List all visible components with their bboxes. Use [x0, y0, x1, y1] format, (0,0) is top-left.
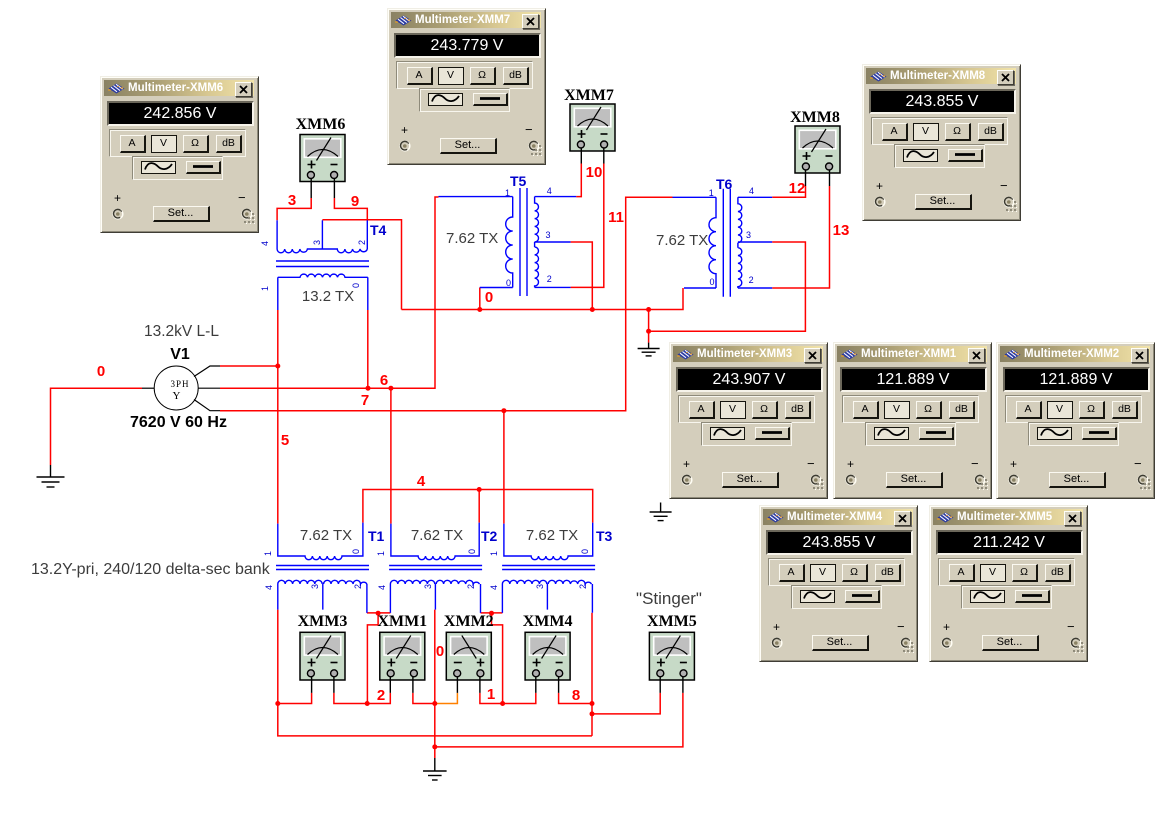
ground GND2	[638, 343, 660, 356]
wire node 1 lower (XMM2+ / XMM4+)	[480, 693, 536, 704]
svg-text:6: 6	[380, 372, 388, 389]
transformer T5 labels	[505, 186, 552, 288]
wire node 13 (T6 pin2 to XMM8-)	[772, 186, 829, 288]
svg-text:T2: T2	[481, 528, 498, 544]
svg-text:T5: T5	[510, 173, 527, 189]
wire phase A vertical (node 5)	[277, 310, 279, 524]
transformer T1 labels	[263, 549, 363, 590]
transformer T3	[502, 523, 595, 613]
multimeter symbol XMM4	[525, 632, 570, 693]
wire node 0 (V1 to ground)	[51, 388, 143, 465]
wire node 9 (XMM6- to T4 pin2)	[334, 198, 367, 220]
svg-text:V1: V1	[170, 346, 190, 363]
multimeter window XMM6	[100, 76, 259, 233]
svg-text:XMM4: XMM4	[523, 613, 573, 630]
transformer T6	[673, 189, 773, 297]
svg-text:4: 4	[264, 585, 274, 590]
junction bus / ground drop	[646, 307, 651, 312]
transformer T3 labels	[489, 549, 590, 590]
junction node 0 / XMM5-	[432, 744, 437, 749]
transformer T1	[276, 523, 369, 613]
svg-text:12: 12	[789, 180, 806, 197]
multimeter symbol XMM6	[300, 135, 345, 199]
junction node 8 / T1 pin4 / XMM3+	[275, 701, 280, 706]
wire T1 pin4 to node8 rail	[278, 610, 592, 736]
svg-text:1: 1	[260, 286, 270, 291]
wire node 2 upper (T1 pin2 / T2 pin4)	[367, 613, 391, 704]
wire node 10 (T5 pin4 to XMM7+)	[576, 164, 581, 197]
wire T5 pin3 link	[571, 242, 593, 310]
multimeter symbol XMM7	[570, 104, 615, 164]
svg-text:13.2 TX: 13.2 TX	[302, 288, 354, 305]
junction node 6 / T4 pin0	[366, 386, 371, 391]
svg-text:T1: T1	[368, 528, 385, 544]
wire node 1 upper (T2 pin2 / T3 pin4)	[481, 613, 503, 704]
svg-text:2: 2	[547, 274, 552, 284]
junction node 0 / XMM1- / XMM2-	[432, 701, 437, 706]
svg-text:13: 13	[833, 222, 850, 239]
svg-text:3: 3	[288, 192, 296, 209]
svg-text:7.62 TX: 7.62 TX	[300, 527, 352, 544]
junction phase A / T4 pin1	[275, 364, 280, 369]
multimeter window XMM7	[387, 8, 546, 165]
wire phase C (node 7)	[220, 197, 673, 410]
wire XMM3+ lead	[278, 693, 312, 704]
junction bus / T5 pin3	[590, 307, 595, 312]
wire GND3 stem red	[434, 747, 436, 758]
svg-text:XMM7: XMM7	[564, 87, 614, 104]
multimeter window XMM4	[759, 505, 918, 662]
wire T4 pin0 drop	[367, 310, 369, 388]
svg-text:13.2kV L-L: 13.2kV L-L	[144, 323, 219, 340]
svg-text:4: 4	[489, 585, 499, 590]
svg-text:XMM8: XMM8	[790, 109, 840, 126]
svg-text:7.62 TX: 7.62 TX	[656, 232, 708, 249]
wire T2 primary feed	[390, 388, 392, 523]
svg-text:0: 0	[506, 278, 511, 288]
svg-text:4: 4	[547, 186, 552, 196]
multimeter symbol XMM8	[795, 126, 840, 186]
transformer T4 labels	[260, 240, 367, 291]
svg-text:2: 2	[578, 584, 588, 589]
svg-text:3: 3	[535, 584, 545, 589]
svg-text:0: 0	[97, 363, 105, 380]
svg-text:0: 0	[351, 549, 361, 554]
svg-text:9: 9	[351, 193, 359, 210]
junction node 8 / XMM4- / T3 pin2	[590, 701, 595, 706]
wire T4 pin3 to neutral bus	[322, 220, 401, 310]
svg-text:3PH: 3PH	[170, 379, 189, 389]
svg-text:0: 0	[710, 277, 715, 287]
svg-text:T3: T3	[596, 528, 613, 544]
multimeter symbol XMM1	[380, 632, 425, 693]
svg-text:2: 2	[749, 275, 754, 285]
wire XMM5- to ground net	[435, 693, 683, 747]
wire XMM2- orange link	[435, 693, 458, 704]
svg-text:7: 7	[361, 392, 369, 409]
junction node 7 / T3 feed	[501, 408, 506, 413]
transformer T6 labels	[709, 186, 754, 287]
wire node 2 (XMM3- / XMM1+)	[334, 693, 390, 704]
svg-text:XMM3: XMM3	[298, 613, 348, 630]
wire T5 pin0 link	[479, 288, 481, 310]
junction bus / T5 pin0	[477, 307, 482, 312]
multimeter symbol XMM2 (reversed polarity)	[446, 632, 491, 693]
wire XMM1- lead	[413, 693, 435, 704]
source V1	[142, 366, 220, 411]
svg-text:7620 V 60 Hz: 7620 V 60 Hz	[130, 414, 227, 431]
svg-text:T4: T4	[370, 222, 387, 238]
svg-text:7.62 TX: 7.62 TX	[526, 527, 578, 544]
svg-text:XMM1: XMM1	[377, 613, 427, 630]
multimeter window XMM1	[833, 342, 992, 499]
svg-text:4: 4	[260, 241, 270, 246]
svg-text:1: 1	[263, 551, 273, 556]
wire node 8 (XMM4- / T3 pin2 / XMM5+)	[559, 613, 661, 736]
svg-text:T6: T6	[716, 176, 733, 192]
multimeter window XMM8	[862, 64, 1021, 221]
svg-text:2: 2	[353, 584, 363, 589]
svg-text:7.62 TX: 7.62 TX	[446, 230, 498, 247]
wire node 12 (T6 pin4 to XMM8+)	[772, 186, 805, 197]
wire node 3 (XMM6+ to T4 pin4)	[277, 198, 311, 220]
svg-text:1: 1	[709, 188, 714, 198]
svg-text:XMM5: XMM5	[647, 613, 697, 630]
svg-text:4: 4	[377, 585, 387, 590]
transformer T2 labels	[376, 549, 477, 590]
junction ground drop / T6 pin3 line	[646, 329, 651, 334]
wire ground net vertical (T2 pin3 to GND3)	[434, 610, 436, 747]
svg-text:3: 3	[546, 230, 551, 240]
multimeter symbol XMM3	[300, 632, 345, 693]
svg-text:1: 1	[487, 686, 495, 703]
svg-text:3: 3	[423, 584, 433, 589]
svg-text:Y: Y	[173, 390, 181, 402]
wire node 11 (T5 pin2 to XMM7-)	[571, 164, 604, 288]
junction node 8 / XMM5+	[590, 711, 595, 716]
wire T2 pin0 drop	[478, 490, 480, 523]
junction node 1 upper	[489, 611, 494, 616]
multimeter window XMM5	[929, 505, 1088, 662]
svg-text:3: 3	[310, 584, 320, 589]
svg-text:5: 5	[281, 432, 289, 449]
junction node 4 / T2 pin0	[477, 487, 482, 492]
ground GND4	[650, 503, 672, 521]
svg-text:13.2Y-pri, 240/120 delta-sec b: 13.2Y-pri, 240/120 delta-sec bank	[31, 561, 271, 578]
svg-text:4: 4	[417, 473, 426, 490]
svg-text:1: 1	[376, 551, 386, 556]
wire phase B (node 6)	[220, 197, 439, 388]
transformer T2	[389, 523, 482, 613]
multimeter symbol XMM5	[649, 632, 694, 693]
junction node 2 upper	[376, 611, 381, 616]
svg-text:0: 0	[436, 643, 444, 660]
svg-text:0: 0	[485, 289, 493, 306]
svg-text:XMM6: XMM6	[296, 116, 346, 133]
multimeter window XMM2	[996, 342, 1155, 499]
svg-text:7.62 TX: 7.62 TX	[411, 527, 463, 544]
svg-text:2: 2	[377, 687, 385, 704]
svg-text:0: 0	[580, 549, 590, 554]
junction node 2 lower	[365, 701, 370, 706]
junction node 1 lower	[500, 701, 505, 706]
multimeter window XMM3	[669, 342, 828, 499]
wire phase A	[220, 365, 278, 367]
transformer T4	[276, 220, 369, 310]
svg-text:2: 2	[466, 584, 476, 589]
svg-text:1: 1	[505, 188, 510, 198]
svg-text:1: 1	[489, 551, 499, 556]
ground GND1	[37, 465, 65, 487]
svg-text:3: 3	[746, 230, 751, 240]
svg-text:0: 0	[467, 549, 477, 554]
transformer T5	[439, 188, 577, 296]
svg-text:XMM2: XMM2	[444, 613, 494, 630]
svg-text:8: 8	[572, 687, 580, 704]
svg-text:4: 4	[749, 186, 754, 196]
wire neutral bus	[402, 288, 684, 310]
junction node 6 / T2 feed	[388, 386, 393, 391]
svg-text:"Stinger": "Stinger"	[636, 589, 702, 608]
wire T3 primary feed	[503, 411, 505, 524]
wire node 4 (primary wye point)	[363, 490, 593, 523]
ground GND3	[423, 758, 447, 780]
svg-text:11: 11	[608, 209, 624, 226]
svg-text:3: 3	[312, 240, 322, 245]
wire T6 pin3 neutral	[649, 242, 806, 331]
wire ground link (bus to GND2)	[648, 310, 650, 343]
svg-text:2: 2	[357, 240, 367, 245]
svg-text:10: 10	[586, 164, 603, 181]
